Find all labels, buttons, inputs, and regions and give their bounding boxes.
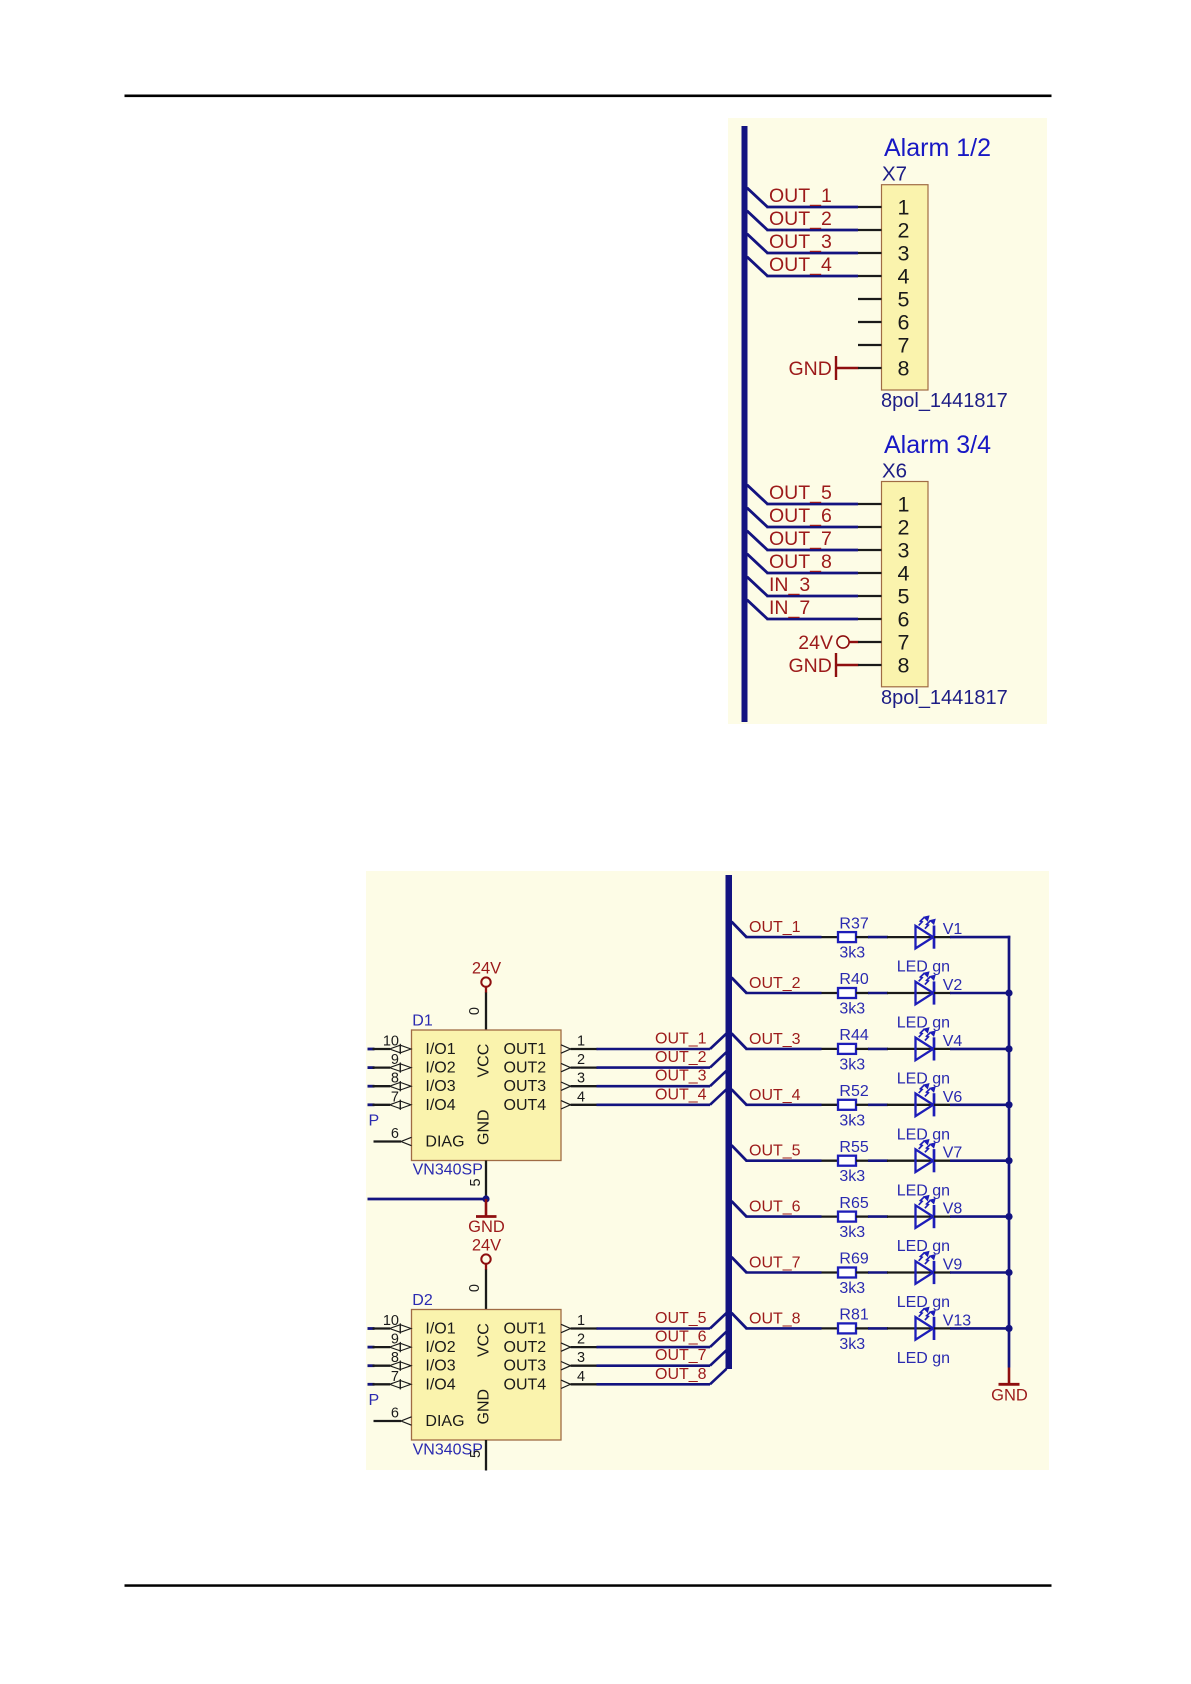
- junction on GND rail row 7: [1005, 1269, 1012, 1276]
- svg-text:OUT_7: OUT_7: [655, 1347, 707, 1364]
- supply 24V circle above D1: [481, 977, 490, 986]
- pin OUT3 line of D1: [571, 1085, 598, 1087]
- svg-text:D2: D2: [412, 1292, 433, 1309]
- svg-text:P: P: [369, 1113, 380, 1130]
- LED V7 cathode bar: [933, 1149, 936, 1172]
- pin OUT4 arrow of D2: [561, 1380, 571, 1388]
- svg-text:8: 8: [898, 357, 910, 381]
- svg-text:OUT_6: OUT_6: [749, 1199, 801, 1216]
- wire net OUT_1 horizontal: [767, 206, 859, 209]
- LED V1 emission arrows: [919, 917, 935, 929]
- wire net IN_7 horizontal: [767, 618, 859, 621]
- wire OUT_2 row 2: [746, 992, 822, 995]
- wire R40 to LED V2: [868, 992, 888, 995]
- LED V8 triangle: [916, 1205, 934, 1228]
- svg-text:GND: GND: [788, 358, 831, 380]
- ground bar bottom right: [999, 1383, 1020, 1386]
- wire from OUT3 of D1: [597, 1085, 711, 1088]
- svg-text:VCC: VCC: [476, 1044, 493, 1078]
- wire R65 to LED V8: [868, 1215, 888, 1218]
- wire R81 to LED V13: [868, 1327, 888, 1330]
- LED V13 anode lead: [887, 1327, 934, 1329]
- svg-text:8: 8: [898, 654, 910, 678]
- LED V1 triangle: [916, 926, 934, 949]
- svg-text:OUT_6: OUT_6: [655, 1329, 707, 1346]
- svg-text:24V: 24V: [472, 1237, 501, 1255]
- LED V1 anode lead: [887, 936, 934, 938]
- pin I/O4 bidirectional arrows of D2: [390, 1379, 412, 1389]
- pin DIAG arrow of D2: [401, 1417, 412, 1425]
- svg-text:3k3: 3k3: [839, 1280, 865, 1297]
- resistor R44 left lead: [822, 1048, 839, 1050]
- supply 24V circle above D2: [481, 1254, 490, 1263]
- svg-text:R65: R65: [839, 1195, 868, 1212]
- wire net OUT_7 horizontal: [767, 549, 859, 552]
- resistor R44 right lead: [856, 1048, 869, 1050]
- svg-text:4: 4: [898, 562, 910, 586]
- svg-text:3k3: 3k3: [839, 1112, 865, 1129]
- LED V7 emission arrows: [919, 1140, 935, 1152]
- LED V6 triangle: [916, 1094, 934, 1117]
- LED V6 cathode bar: [933, 1093, 936, 1116]
- supply stub below circle of D2: [485, 1264, 487, 1270]
- svg-text:I/O1: I/O1: [425, 1321, 455, 1338]
- pin OUT4 arrow of D1: [561, 1101, 571, 1109]
- wire from OUT1 of D1: [597, 1048, 711, 1051]
- LED V13 emission arrows: [919, 1308, 935, 1320]
- svg-text:IN_3: IN_3: [769, 574, 810, 596]
- svg-text:1: 1: [577, 1034, 585, 1050]
- wire from OUT2 of D2: [597, 1346, 711, 1349]
- LED V2 emission arrows: [919, 972, 935, 984]
- svg-text:4: 4: [898, 265, 910, 289]
- svg-text:GND: GND: [476, 1389, 493, 1425]
- LED V4 emission arrows: [919, 1028, 935, 1040]
- svg-text:I/O3: I/O3: [425, 1358, 455, 1375]
- wire net IN_3 horizontal: [767, 595, 859, 598]
- svg-text:OUT1: OUT1: [504, 1321, 547, 1338]
- wire net OUT_2 horizontal: [767, 229, 859, 232]
- svg-text:V7: V7: [943, 1145, 963, 1162]
- wire diagonal OUT_7 from bus to LED row 7: [732, 1257, 747, 1273]
- supply 24V circle at X6 pin 7: [837, 636, 849, 648]
- wire LED V6 to GND rail: [950, 1104, 1010, 1107]
- wire net OUT_3 diagonal from bus: [747, 234, 768, 253]
- wire LED V8 to GND rail: [950, 1215, 1010, 1218]
- pin OUT3 arrow of D1: [561, 1082, 571, 1090]
- svg-text:DIAG: DIAG: [425, 1413, 464, 1430]
- resistor R44 body: [838, 1044, 856, 1054]
- LED V6 emission arrows: [919, 1084, 935, 1096]
- wire LED V2 to GND rail: [950, 992, 1010, 995]
- pin I/O1 line of D2: [373, 1327, 391, 1329]
- LED V13 cathode lead: [934, 1327, 951, 1329]
- wire 24V to X6 pin 7: [849, 641, 859, 643]
- svg-text:9: 9: [391, 1332, 399, 1348]
- wire diagonal OUT_4 from bus to LED row 4: [732, 1089, 747, 1105]
- svg-text:V8: V8: [943, 1201, 963, 1218]
- wire into I/O2 of D2: [368, 1346, 375, 1349]
- resistor R37 right lead: [856, 936, 869, 938]
- svg-text:2: 2: [577, 1052, 585, 1068]
- wire GND net to D1 pin 5: [368, 1198, 487, 1201]
- svg-text:8pol_1441817: 8pol_1441817: [881, 687, 1008, 709]
- LED V8 emission arrows: [919, 1196, 935, 1208]
- wire from OUT3 of D2: [597, 1364, 711, 1367]
- wire OUT_6 row 6: [746, 1215, 822, 1218]
- connector X6 body: [882, 482, 929, 687]
- svg-text:Alarm 3/4: Alarm 3/4: [884, 431, 991, 459]
- svg-text:R40: R40: [839, 971, 868, 988]
- wire R52 to LED V6: [868, 1104, 888, 1107]
- bottom horizontal rule: [125, 1584, 1052, 1587]
- svg-text:OUT_4: OUT_4: [749, 1087, 801, 1104]
- svg-text:6: 6: [391, 1126, 399, 1142]
- wire net OUT_3 horizontal: [767, 252, 859, 255]
- pin I/O1 line of D1: [373, 1048, 391, 1050]
- wire from OUT2 of D1: [597, 1066, 711, 1069]
- LED V13 cathode bar: [933, 1317, 936, 1340]
- junction on GND rail row 6: [1005, 1213, 1012, 1220]
- svg-text:OUT_3: OUT_3: [749, 1031, 801, 1048]
- svg-text:6: 6: [898, 608, 910, 632]
- top horizontal rule: [125, 95, 1052, 98]
- pin 1 stub of X6: [858, 503, 882, 505]
- ground stub bottom right: [1008, 1368, 1011, 1384]
- svg-text:OUT_6: OUT_6: [769, 505, 832, 527]
- svg-text:V2: V2: [943, 977, 963, 994]
- svg-text:I/O2: I/O2: [425, 1339, 455, 1356]
- IC D1 body: [412, 1030, 562, 1161]
- wire VCC supply of D2: [485, 1270, 487, 1310]
- svg-text:0: 0: [467, 1284, 483, 1292]
- pin OUT1 line of D2: [571, 1327, 598, 1329]
- GND rail (right vertical): [1008, 936, 1011, 1368]
- wire net OUT_8 horizontal: [767, 572, 859, 575]
- pin DIAG arrow of D1: [401, 1137, 412, 1145]
- LED V7 triangle: [916, 1149, 934, 1172]
- wire OUT_4 row 4: [746, 1104, 822, 1107]
- svg-text:OUT_2: OUT_2: [749, 975, 801, 992]
- wire OUT_7 row 7: [746, 1271, 822, 1274]
- ground stub below D1: [485, 1199, 488, 1216]
- svg-text:GND: GND: [468, 1218, 505, 1236]
- svg-text:GND: GND: [788, 655, 831, 677]
- svg-text:OUT_4: OUT_4: [769, 254, 832, 276]
- ground bar below D1: [476, 1215, 497, 1218]
- wire LED V7 to GND rail: [950, 1159, 1010, 1162]
- wire LED V9 to GND rail: [950, 1271, 1010, 1274]
- svg-text:V1: V1: [943, 921, 963, 938]
- LED V9 triangle: [916, 1261, 934, 1284]
- svg-text:OUT_5: OUT_5: [769, 482, 832, 504]
- junction at D1 pin 5: [482, 1195, 489, 1202]
- svg-text:OUT_8: OUT_8: [749, 1310, 801, 1327]
- junction on GND rail row 3: [1005, 1045, 1012, 1052]
- pin 7 stub of X7: [858, 344, 882, 346]
- svg-text:4: 4: [577, 1369, 585, 1385]
- svg-text:5: 5: [898, 585, 910, 609]
- pin 2 stub of X6: [858, 526, 882, 528]
- wire from OUT4 of D2: [597, 1383, 711, 1386]
- svg-text:OUT_4: OUT_4: [655, 1086, 707, 1103]
- bus (section 1 vertical net bus): [742, 126, 748, 722]
- LED V4 anode lead: [887, 1048, 934, 1050]
- pin 4 stub of X7: [858, 275, 882, 277]
- pin OUT2 arrow of D1: [561, 1063, 571, 1071]
- svg-text:3: 3: [577, 1071, 585, 1087]
- wire diagonal OUT3 of D2 to bus: [710, 1350, 727, 1366]
- ground bar at X6 pin 8: [835, 653, 837, 677]
- pin I/O2 line of D1: [373, 1066, 391, 1068]
- pin I/O4 line of D2: [373, 1383, 391, 1385]
- svg-text:D1: D1: [412, 1013, 433, 1030]
- svg-text:I/O4: I/O4: [425, 1097, 455, 1114]
- wire diagonal OUT_8 from bus to LED row 8: [732, 1313, 747, 1329]
- svg-text:8: 8: [391, 1350, 399, 1366]
- pin 5 (GND) line of D1: [485, 1161, 487, 1200]
- svg-text:3k3: 3k3: [839, 945, 865, 962]
- svg-text:Alarm 1/2: Alarm 1/2: [884, 134, 991, 162]
- LED V8 cathode lead: [934, 1215, 951, 1217]
- wire into I/O4 of D2: [368, 1383, 375, 1386]
- svg-text:VN340SP: VN340SP: [413, 1162, 483, 1179]
- svg-text:GND: GND: [991, 1387, 1028, 1405]
- wire net OUT_1 diagonal from bus: [747, 188, 768, 207]
- svg-text:3: 3: [898, 539, 910, 563]
- wire net IN_3 diagonal from bus: [747, 577, 768, 596]
- svg-text:3k3: 3k3: [839, 1001, 865, 1018]
- svg-text:V6: V6: [943, 1089, 963, 1106]
- wire LED V1 to GND rail: [950, 936, 1010, 939]
- pin OUT4 line of D2: [571, 1383, 598, 1385]
- resistor R69 body: [838, 1268, 856, 1278]
- svg-text:OUT1: OUT1: [504, 1041, 547, 1058]
- resistor R65 body: [838, 1212, 856, 1222]
- svg-text:10: 10: [383, 1313, 399, 1329]
- svg-text:24V: 24V: [472, 960, 501, 978]
- svg-text:8pol_1441817: 8pol_1441817: [881, 390, 1008, 412]
- svg-text:OUT3: OUT3: [504, 1358, 547, 1375]
- pin 1 stub of X7: [858, 206, 882, 208]
- svg-text:VCC: VCC: [476, 1323, 493, 1357]
- LED V2 triangle: [916, 982, 934, 1005]
- svg-text:IN_7: IN_7: [769, 597, 810, 619]
- resistor R40 right lead: [856, 992, 869, 994]
- pin I/O1 bidirectional arrows of D1: [390, 1044, 412, 1054]
- pin OUT1 line of D1: [571, 1048, 598, 1050]
- resistor R40 body: [838, 988, 856, 998]
- wire diagonal OUT_6 from bus to LED row 6: [732, 1201, 747, 1217]
- pin 3 stub of X6: [858, 549, 882, 551]
- pin 8 stub of X6: [858, 664, 882, 666]
- wire diagonal OUT1 of D1 to bus: [710, 1034, 727, 1050]
- resistor R81 right lead: [856, 1327, 869, 1329]
- wire GND to X6 pin 8: [836, 664, 859, 666]
- svg-text:5: 5: [468, 1450, 484, 1458]
- junction on GND rail row 4: [1005, 1101, 1012, 1108]
- wire GND to X7 pin 8: [836, 367, 859, 369]
- LED V8 cathode bar: [933, 1205, 936, 1228]
- wire R55 to LED V7: [868, 1159, 888, 1162]
- LED V1 cathode lead: [934, 936, 951, 938]
- pin 3 stub of X7: [858, 252, 882, 254]
- wire into I/O1 of D2: [368, 1327, 375, 1330]
- svg-text:3k3: 3k3: [839, 1336, 865, 1353]
- LED V13 triangle: [916, 1317, 934, 1340]
- wire from OUT1 of D2: [597, 1327, 711, 1330]
- svg-text:R81: R81: [839, 1307, 868, 1324]
- LED V4 cathode bar: [933, 1037, 936, 1060]
- pin 8 stub of X7: [858, 367, 882, 369]
- svg-text:5: 5: [468, 1178, 484, 1186]
- pin 5 (GND) line of D2: [485, 1440, 487, 1471]
- LED V9 cathode bar: [933, 1261, 936, 1284]
- svg-text:R55: R55: [839, 1139, 868, 1156]
- svg-text:0: 0: [467, 1007, 483, 1015]
- wire diagonal OUT_5 from bus to LED row 5: [732, 1145, 747, 1161]
- svg-text:1: 1: [577, 1313, 585, 1329]
- junction on GND rail row 2: [1005, 989, 1012, 996]
- LED V4 cathode lead: [934, 1048, 951, 1050]
- svg-text:3k3: 3k3: [839, 1168, 865, 1185]
- pin OUT4 line of D1: [571, 1104, 598, 1106]
- pin DIAG line of D1: [374, 1140, 402, 1142]
- wire diagonal OUT1 of D2 to bus: [710, 1313, 727, 1329]
- pin OUT3 arrow of D2: [561, 1362, 571, 1370]
- svg-text:OUT_7: OUT_7: [749, 1255, 801, 1272]
- svg-text:2: 2: [898, 516, 910, 540]
- svg-text:OUT_7: OUT_7: [769, 528, 832, 550]
- svg-text:X7: X7: [882, 163, 907, 186]
- svg-text:OUT2: OUT2: [504, 1339, 547, 1356]
- LED V8 anode lead: [887, 1215, 934, 1217]
- svg-text:X6: X6: [882, 459, 907, 482]
- svg-text:7: 7: [391, 1369, 399, 1385]
- pin I/O2 line of D2: [373, 1346, 391, 1348]
- svg-text:OUT3: OUT3: [504, 1078, 547, 1095]
- LED V9 emission arrows: [919, 1252, 935, 1264]
- svg-text:OUT_1: OUT_1: [749, 919, 801, 936]
- svg-text:I/O1: I/O1: [425, 1041, 455, 1058]
- svg-text:OUT_2: OUT_2: [769, 208, 832, 230]
- svg-text:OUT4: OUT4: [504, 1097, 547, 1114]
- ground bar at X7 pin 8: [835, 356, 837, 380]
- svg-text:9: 9: [391, 1052, 399, 1068]
- wire net OUT_8 diagonal from bus: [747, 554, 768, 573]
- wire diagonal OUT_3 from bus to LED row 3: [732, 1033, 747, 1049]
- resistor R65 right lead: [856, 1215, 869, 1217]
- pin 2 stub of X7: [858, 229, 882, 231]
- pin I/O2 bidirectional arrows of D2: [390, 1342, 412, 1352]
- svg-text:LED gn: LED gn: [897, 1350, 950, 1367]
- wire diagonal OUT3 of D1 to bus: [710, 1071, 727, 1087]
- wire LED V13 to GND rail: [950, 1327, 1010, 1330]
- wire net OUT_5 diagonal from bus: [747, 485, 768, 504]
- wire R44 to LED V4: [868, 1048, 888, 1051]
- svg-text:2: 2: [898, 219, 910, 243]
- wire OUT_8 row 8: [746, 1327, 822, 1330]
- pin 5 stub of X7: [858, 298, 882, 300]
- svg-text:R69: R69: [839, 1251, 868, 1268]
- wire net OUT_4 diagonal from bus: [747, 257, 768, 276]
- pin DIAG line of D2: [374, 1420, 402, 1422]
- pin OUT2 arrow of D2: [561, 1343, 571, 1351]
- wire LED V4 to GND rail: [950, 1048, 1010, 1051]
- svg-text:OUT_5: OUT_5: [749, 1143, 801, 1160]
- pin 7 stub of X6: [858, 641, 882, 643]
- svg-text:5: 5: [898, 288, 910, 312]
- junction on GND rail row 8: [1005, 1325, 1012, 1332]
- wire diagonal OUT_1 from bus to LED row 1: [732, 922, 747, 938]
- LED V4 triangle: [916, 1038, 934, 1061]
- LED V9 cathode lead: [934, 1271, 951, 1273]
- wire OUT_3 row 3: [746, 1048, 822, 1051]
- LED V7 anode lead: [887, 1160, 934, 1162]
- svg-text:OUT_2: OUT_2: [655, 1049, 707, 1066]
- pin OUT2 line of D2: [571, 1346, 598, 1348]
- pin I/O4 bidirectional arrows of D1: [390, 1100, 412, 1110]
- svg-text:1: 1: [898, 196, 910, 220]
- wire net OUT_4 horizontal: [767, 275, 859, 278]
- wire into I/O3 of D2: [368, 1364, 375, 1367]
- pin 4 stub of X6: [858, 572, 882, 574]
- wire R69 to LED V9: [868, 1271, 888, 1274]
- pin 6 stub of X6: [858, 618, 882, 620]
- wire net OUT_6 horizontal: [767, 526, 859, 529]
- wire net IN_7 diagonal from bus: [747, 600, 768, 619]
- resistor R52 left lead: [822, 1104, 839, 1106]
- svg-text:3k3: 3k3: [839, 1224, 865, 1241]
- svg-text:8: 8: [391, 1071, 399, 1087]
- svg-text:OUT2: OUT2: [504, 1060, 547, 1077]
- resistor R52 right lead: [856, 1104, 869, 1106]
- wire R37 to LED V1: [868, 936, 888, 939]
- svg-text:R44: R44: [839, 1027, 868, 1044]
- svg-text:6: 6: [391, 1406, 399, 1422]
- resistor R40 left lead: [822, 992, 839, 994]
- pin 6 stub of X7: [858, 321, 882, 323]
- resistor R52 body: [838, 1100, 856, 1110]
- LED V9 anode lead: [887, 1271, 934, 1273]
- pin I/O4 line of D1: [373, 1104, 391, 1106]
- svg-text:1: 1: [898, 493, 910, 517]
- wire diagonal OUT2 of D2 to bus: [710, 1332, 727, 1348]
- IC D2 body: [412, 1310, 562, 1441]
- svg-text:OUT_5: OUT_5: [655, 1310, 707, 1327]
- bus (section 2 vertical net bus): [726, 875, 733, 1369]
- resistor R37 left lead: [822, 936, 839, 938]
- resistor R69 right lead: [856, 1271, 869, 1273]
- resistor R69 left lead: [822, 1271, 839, 1273]
- schematic clip background (Alarm section): [728, 118, 1047, 724]
- svg-text:3: 3: [577, 1350, 585, 1366]
- svg-text:V9: V9: [943, 1257, 963, 1274]
- svg-text:2: 2: [577, 1332, 585, 1348]
- pin 5 stub of X6: [858, 595, 882, 597]
- svg-text:OUT_3: OUT_3: [655, 1068, 707, 1085]
- svg-text:OUT4: OUT4: [504, 1376, 547, 1393]
- LED V7 cathode lead: [934, 1160, 951, 1162]
- svg-text:V4: V4: [943, 1033, 963, 1050]
- resistor R65 left lead: [822, 1215, 839, 1217]
- resistor R81 left lead: [822, 1327, 839, 1329]
- pin I/O3 line of D1: [373, 1085, 391, 1087]
- junction on GND rail row 5: [1005, 1157, 1012, 1164]
- pin I/O3 line of D2: [373, 1365, 391, 1367]
- svg-text:10: 10: [383, 1034, 399, 1050]
- svg-text:OUT_8: OUT_8: [655, 1366, 707, 1383]
